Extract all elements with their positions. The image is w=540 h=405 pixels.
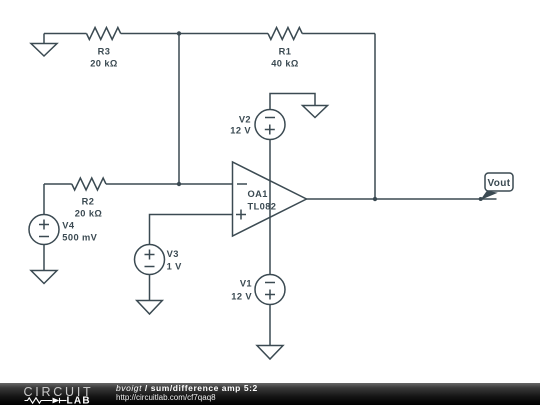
svg-text:TL082: TL082 — [248, 202, 277, 212]
svg-text:V4: V4 — [62, 220, 75, 230]
svg-text:R2: R2 — [82, 197, 95, 207]
svg-text:R3: R3 — [98, 46, 111, 56]
svg-text:OA1: OA1 — [248, 189, 268, 199]
svg-text:20 kΩ: 20 kΩ — [75, 209, 103, 219]
svg-text:V1: V1 — [240, 279, 252, 289]
svg-text:1 V: 1 V — [167, 261, 183, 271]
svg-text:20 kΩ: 20 kΩ — [90, 58, 118, 68]
svg-text:12 V: 12 V — [231, 291, 252, 301]
svg-text:LAB: LAB — [67, 396, 91, 405]
svg-text:12 V: 12 V — [230, 125, 251, 135]
svg-text:500 mV: 500 mV — [62, 232, 97, 242]
svg-text:40 kΩ: 40 kΩ — [271, 58, 299, 68]
svg-text:V2: V2 — [239, 115, 251, 125]
svg-text:R1: R1 — [279, 46, 292, 56]
svg-text:Vout: Vout — [487, 178, 510, 189]
svg-text:V3: V3 — [167, 249, 179, 259]
